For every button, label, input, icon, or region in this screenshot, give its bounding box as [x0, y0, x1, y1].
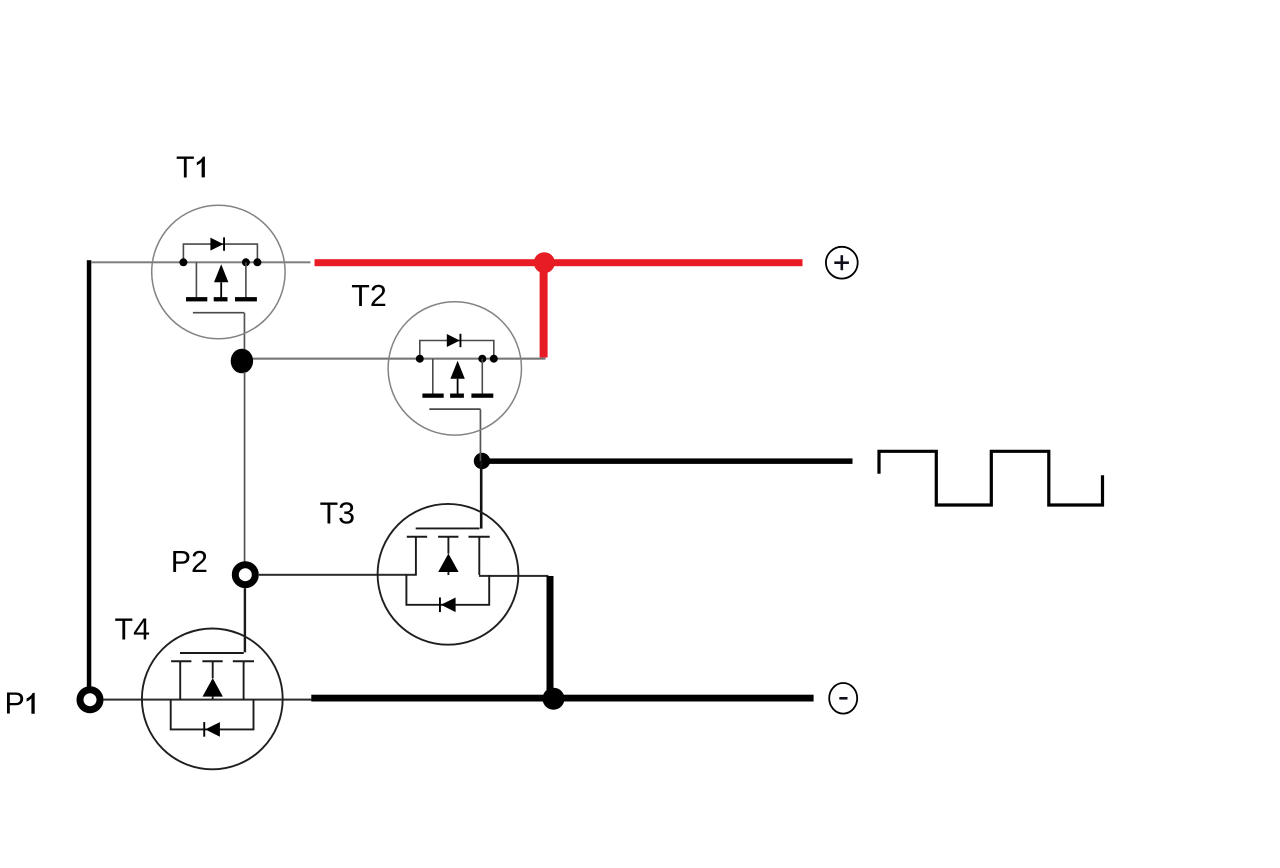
svg-text:T4: T4 [115, 612, 151, 646]
svg-text:P2: P2 [171, 545, 208, 579]
svg-text:T: T [176, 150, 195, 184]
svg-text:T3: T3 [320, 496, 355, 530]
svg-text:T2: T2 [351, 279, 386, 313]
svg-text:P: P [5, 687, 25, 721]
